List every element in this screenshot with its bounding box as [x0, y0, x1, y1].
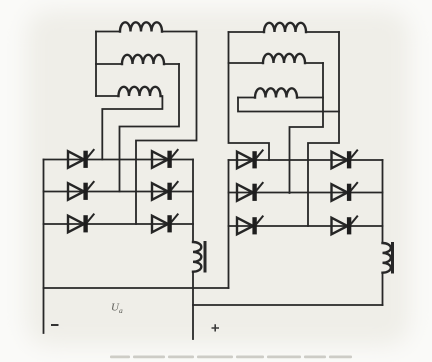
thyristor VT9 (right bridge row3 left)	[237, 216, 263, 235]
wire: bottom rail Ua (negative side)	[44, 287, 229, 289]
reactor Ld2 core bar	[391, 244, 394, 273]
wire: right wye/delta rail from R1,R2 left ends down to row1	[229, 32, 270, 160]
wire: left bridge positive rail (right, down to reactor)	[192, 160, 194, 243]
wire: below right reactor to bottom rail 2	[382, 273, 384, 305]
wire: left bridge row 1	[44, 159, 194, 161]
thyristor VT12 (right bridge row3 right)	[332, 216, 358, 235]
thyristor VT7 (right bridge row1 left)	[237, 150, 263, 169]
inductor R1 (right group, top winding)	[229, 31, 265, 33]
thyristor VT8 (right bridge row2 left)	[237, 182, 263, 201]
thyristor VT5 (left bridge row2 right)	[152, 181, 178, 200]
reactor Ld2 coil (right smoothing inductor)	[383, 243, 391, 273]
wire: bottom rail 2 (positive link to right reactor)	[193, 304, 383, 306]
thyristor VT11 (right bridge row2 right)	[332, 182, 358, 201]
thyristor VT4 (left bridge row1 right)	[152, 149, 178, 168]
wire: left wye neutral rail	[95, 32, 97, 97]
wire: right bridge right rail down to reactor	[382, 160, 384, 243]
label minus terminal	[51, 324, 59, 326]
inductor L2 (left group, middle phase winding)	[96, 63, 122, 65]
thyristor VT3 (left bridge row3 left)	[68, 214, 94, 233]
wire: right bridge row 3	[229, 225, 383, 227]
wire: left bridge row 3	[44, 223, 194, 225]
wire: R3 left end down and across to R1 drop	[238, 98, 339, 112]
thyristor VT1 (left bridge row1 left)	[68, 149, 94, 168]
wire: L1 right end down to bridge row 3	[136, 32, 197, 225]
wire: left bridge row 2	[44, 191, 194, 193]
reactor Ld1 coil (left smoothing inductor)	[193, 242, 201, 272]
wire: R1 right end down, then to bridge row 3	[308, 32, 339, 226]
reactor Ld1 core bar	[204, 243, 207, 272]
wire: R3 right end joins R2 drop	[297, 97, 323, 99]
inductor L1 (left group, top phase winding)	[96, 31, 120, 33]
wire: R2 right end down then left then to bridge row 2	[290, 63, 324, 193]
wire: output lead below reactor to plus terminal	[192, 272, 194, 340]
wire: L3 right end down to bridge row 1	[102, 96, 162, 160]
thyristor VT10 (right bridge row1 right)	[332, 150, 358, 169]
wire: left bridge negative rail (left)	[43, 160, 45, 334]
label plus terminal	[212, 324, 220, 331]
inductor R3 (right group, bottom winding)	[238, 97, 255, 99]
wire: L2 right end down to bridge row 2	[120, 64, 180, 192]
thyristor VT2 (left bridge row2 left)	[68, 181, 94, 200]
wire: right bridge row 2	[229, 192, 383, 194]
wire: right bridge row 1	[229, 159, 383, 161]
faint caption remnant at bottom	[110, 356, 352, 359]
wire: right bridge left rail joins bottom rail	[228, 160, 230, 288]
inductor R2 (right group, middle winding)	[229, 62, 264, 64]
thyristor VT6 (left bridge row3 right)	[152, 214, 178, 233]
inductor L3 (left group, bottom phase winding)	[96, 95, 119, 97]
